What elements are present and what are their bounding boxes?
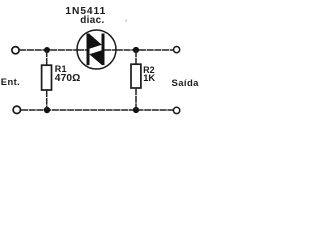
svg-text:1K: 1K — [143, 73, 155, 83]
svg-text:Saída: Saída — [172, 78, 200, 89]
svg-text:diac.: diac. — [80, 15, 104, 26]
svg-text:470Ω: 470Ω — [55, 73, 81, 84]
svg-text:Ent.: Ent. — [1, 76, 20, 87]
